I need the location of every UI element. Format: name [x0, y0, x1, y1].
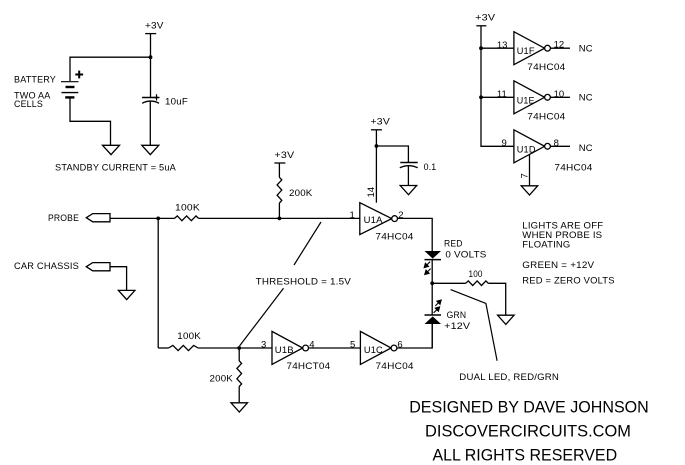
node: battery / +3V junction — [149, 55, 153, 59]
inverter U1C 74HC04 — [360, 331, 413, 372]
LED D2 GRN — [425, 300, 442, 324]
resistor R3 100K (lower) — [169, 345, 199, 350]
inverter U1B 74HCT04 — [272, 331, 330, 372]
wire: node C to R5 — [432, 282, 466, 284]
inverter U1E 74HC04 — [514, 81, 566, 123]
svg-text:DISCOVERCIRCUITS.COM: DISCOVERCIRCUITS.COM — [425, 421, 631, 440]
node: U1E input junction — [479, 95, 483, 99]
svg-text:NC: NC — [579, 44, 593, 55]
svg-text:9: 9 — [502, 138, 507, 149]
wire: car chassis to ground — [110, 267, 127, 291]
power +3V (battery rail) — [145, 21, 164, 34]
svg-text:74HC04: 74HC04 — [554, 163, 592, 174]
wire: node A down to lower branch — [157, 218, 159, 348]
label BATTERY TWO AA CELLS — [14, 75, 56, 110]
svg-text:5: 5 — [350, 339, 355, 350]
power +3V (R2 pull-up) — [274, 150, 295, 163]
wire: +3V to U1A pin 14 — [375, 130, 377, 203]
wire: U1B pin 4 to U1C pin 5 — [309, 347, 361, 349]
power +3V (unused gate inputs) — [475, 12, 496, 25]
resistor R1 100K (upper) — [175, 216, 199, 221]
svg-text:NC: NC — [579, 143, 593, 154]
svg-text:THRESHOLD = 1.5V: THRESHOLD = 1.5V — [256, 277, 352, 288]
wire: C2 to ground — [407, 166, 409, 185]
svg-text:GRN: GRN — [447, 310, 467, 321]
ground (car chassis) — [118, 290, 134, 299]
svg-text:0.1: 0.1 — [424, 162, 437, 173]
svg-text:DESIGNED BY DAVE JOHNSON: DESIGNED BY DAVE JOHNSON — [409, 397, 649, 416]
svg-text:GREEN = +12V: GREEN = +12V — [522, 260, 594, 271]
svg-text:10: 10 — [554, 89, 565, 100]
svg-text:FLOATING: FLOATING — [522, 240, 570, 251]
connector: CAR CHASSIS — [86, 263, 110, 271]
wire: D1 to D2 through node C — [431, 260, 433, 315]
wire: U1D output (NC) — [550, 145, 570, 147]
ground (R5) — [498, 315, 514, 324]
wire: node A to R3 — [158, 347, 168, 349]
svg-text:U1F: U1F — [517, 46, 535, 57]
node: pin 14 / bypass junction — [375, 144, 379, 148]
svg-text:RED = ZERO VOLTS: RED = ZERO VOLTS — [522, 275, 614, 286]
svg-text:+3V: +3V — [475, 12, 496, 23]
capacitor C2 0.1 bypass — [400, 163, 418, 168]
label GRN +12V — [444, 310, 471, 332]
pointer line: threshold (upper segment) — [294, 222, 321, 265]
svg-text:200K: 200K — [210, 374, 234, 385]
svg-text:200K: 200K — [289, 188, 313, 199]
svg-text:100K: 100K — [175, 203, 200, 214]
resistor R5 100 — [466, 281, 489, 286]
label RED 0 VOLTS — [444, 239, 487, 261]
wire: U1E output (NC) — [550, 96, 570, 98]
svg-text:74HCT04: 74HCT04 — [287, 361, 331, 372]
svg-text:+3V: +3V — [145, 21, 164, 32]
wire: battery negative to ground — [70, 97, 111, 145]
svg-text:+3V: +3V — [371, 116, 391, 127]
svg-text:74HC04: 74HC04 — [375, 231, 413, 242]
ground (R4) — [231, 403, 248, 412]
svg-text:DUAL LED, RED/GRN: DUAL LED, RED/GRN — [459, 372, 559, 383]
power +3V (U1A pin 14) — [371, 116, 391, 129]
svg-text:74HC04: 74HC04 — [527, 62, 565, 73]
svg-text:6: 6 — [397, 339, 402, 350]
svg-text:+12V: +12V — [444, 321, 471, 332]
wire: D2 to U1C output column — [431, 324, 433, 348]
wire: junction to bypass capacitor C2 — [376, 146, 408, 163]
wire: capacitor to ground — [149, 102, 151, 146]
svg-text:CELLS: CELLS — [14, 99, 43, 110]
svg-text:NC: NC — [579, 93, 593, 104]
svg-text:8: 8 — [554, 138, 559, 149]
pointer line: threshold (lower segment) — [240, 288, 284, 346]
wire: R4 to ground — [238, 387, 240, 403]
battery B1 (two AA cells) — [61, 71, 83, 98]
svg-text:CAR CHASSIS: CAR CHASSIS — [14, 261, 79, 272]
node A (probe line junction) — [156, 217, 160, 221]
wire: +3V to R2 — [278, 163, 280, 177]
wire: R1 to U1A pin 1 — [199, 217, 360, 219]
wire: +3V rail down to U1D input — [481, 26, 514, 147]
svg-text:13: 13 — [497, 40, 508, 51]
svg-text:PROBE: PROBE — [48, 213, 79, 224]
svg-text:+3V: +3V — [274, 150, 295, 161]
resistor R2 200K (pull-up) — [277, 177, 282, 203]
svg-text:1: 1 — [350, 210, 355, 221]
node B (threshold divider) — [237, 346, 241, 350]
wire: U1A pin 2 to LED column — [398, 218, 433, 251]
note: LIGHTS ARE OFF WHEN PROBE IS FLOATING — [522, 220, 603, 250]
svg-text:11: 11 — [497, 89, 507, 100]
wire: probe to node A — [110, 217, 175, 219]
svg-text:2: 2 — [398, 210, 403, 221]
inverter U1D 74HC04 — [514, 130, 593, 174]
svg-text:U1A: U1A — [364, 215, 383, 226]
inverter U1F 74HC04 — [514, 32, 566, 73]
wire: R3 to U1B pin 3 — [198, 347, 272, 349]
node: U1F input junction — [479, 46, 483, 50]
svg-text:U1C: U1C — [364, 345, 383, 356]
svg-text:74HC04: 74HC04 — [376, 361, 414, 372]
ground (battery) — [103, 145, 120, 154]
ground (C2) — [400, 186, 417, 195]
LED D1 RED — [424, 251, 441, 275]
svg-text:74HC04: 74HC04 — [527, 111, 565, 122]
svg-text:U1B: U1B — [275, 345, 294, 356]
wire: U1C pin 6 to LED column — [397, 324, 432, 348]
resistor R4 200K (pull-down) — [237, 348, 242, 387]
svg-text:U1E: U1E — [517, 95, 535, 106]
capacitor C1 10uF — [142, 94, 160, 103]
svg-text:0 VOLTS: 0 VOLTS — [445, 249, 486, 260]
ground (10uF capacitor) — [142, 145, 159, 154]
wire: junction to U1E pin 11 — [481, 96, 514, 98]
wire: junction to U1F pin 13 — [481, 47, 514, 49]
pointer line: dual LED note — [451, 290, 498, 361]
connector: PROBE input — [86, 214, 110, 222]
inverter U1A 74HC04 — [360, 203, 414, 243]
svg-text:RED: RED — [444, 239, 463, 250]
wire: R5 to ground — [488, 283, 505, 315]
svg-text:100: 100 — [469, 269, 483, 280]
svg-text:ALL RIGHTS RESERVED: ALL RIGHTS RESERVED — [432, 445, 617, 464]
wire: R2 to node — [278, 203, 280, 218]
wire: U1F output (NC) — [550, 47, 570, 49]
svg-text:12: 12 — [554, 40, 565, 51]
svg-text:10uF: 10uF — [165, 97, 188, 108]
wire: +3V down to 10uF capacitor — [150, 34, 152, 97]
svg-text:4: 4 — [309, 339, 314, 350]
svg-text:BATTERY: BATTERY — [14, 75, 56, 86]
wire: U1D pin 7 to ground — [529, 154, 531, 186]
node C (LED / R5 junction) — [430, 281, 434, 285]
svg-text:STANDBY CURRENT = 5uA: STANDBY CURRENT = 5uA — [55, 162, 176, 173]
ground (U1D pin 7) — [521, 186, 538, 195]
wire: junction to battery positive terminal — [70, 57, 151, 81]
svg-text:14: 14 — [366, 187, 377, 198]
node: R2 pull-up junction — [278, 217, 282, 221]
svg-text:100K: 100K — [177, 331, 201, 342]
svg-text:U1D: U1D — [517, 144, 536, 155]
svg-text:3: 3 — [261, 339, 266, 350]
